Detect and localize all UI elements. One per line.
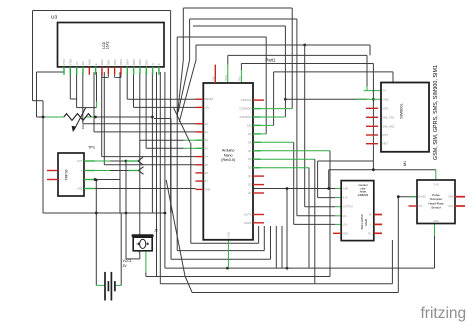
svg-text:D3: D3 xyxy=(248,183,252,187)
svg-text:GND: GND xyxy=(343,188,349,191)
svg-text:M1: M1 xyxy=(403,161,407,166)
svg-text:VSS: VSS xyxy=(62,59,66,65)
svg-text:INT: INT xyxy=(419,205,424,208)
svg-text:SCL: SCL xyxy=(449,205,454,208)
svg-text:GSM, SIM, GPRS, SMS, SIM900, S: GSM, SIM, GPRS, SMS, SIM900, SIM1 xyxy=(433,65,439,160)
svg-text:A6: A6 xyxy=(205,171,209,175)
svg-text:SIM800L: SIM800L xyxy=(399,102,404,118)
svg-text:R: R xyxy=(369,214,371,217)
svg-text:D1/TX: D1/TX xyxy=(244,213,252,217)
svg-text:AD8232: AD8232 xyxy=(358,193,369,197)
svg-text:SIM_RXD: SIM_RXD xyxy=(383,124,395,128)
svg-text:D10: D10 xyxy=(247,123,252,127)
svg-text:D13/SCK: D13/SCK xyxy=(241,98,252,102)
svg-text:NET: NET xyxy=(383,142,389,146)
svg-text:D7: D7 xyxy=(248,149,252,153)
svg-text:3.3V: 3.3V xyxy=(433,183,439,187)
svg-text:DB0: DB0 xyxy=(100,59,104,65)
svg-text:D5: D5 xyxy=(248,166,252,170)
svg-text:3.3V: 3.3V xyxy=(343,197,348,200)
svg-text:D11/MOSI: D11/MOSI xyxy=(240,115,252,119)
svg-text:VDD: VDD xyxy=(383,106,389,110)
svg-text:DB4: DB4 xyxy=(126,59,130,65)
svg-text:fritzing: fritzing xyxy=(421,305,467,322)
svg-text:GND: GND xyxy=(227,232,231,238)
svg-text:Sensor: Sensor xyxy=(431,206,441,210)
svg-text:DB2: DB2 xyxy=(113,59,117,65)
svg-text:A0: A0 xyxy=(205,122,209,126)
svg-text:A1: A1 xyxy=(205,130,209,134)
svg-text:A4: A4 xyxy=(205,155,209,159)
svg-text:VDD: VDD xyxy=(69,58,73,65)
svg-text:SEN-12650: SEN-12650 xyxy=(360,214,364,229)
svg-text:V0: V0 xyxy=(75,61,79,65)
svg-text:OUT: OUT xyxy=(77,159,83,163)
svg-text:GND: GND xyxy=(205,187,211,191)
svg-text:10k: 10k xyxy=(81,124,85,129)
svg-text:Arduino: Arduino xyxy=(222,149,234,153)
svg-text:SDA: SDA xyxy=(448,196,453,199)
svg-text:DB5: DB5 xyxy=(132,59,136,65)
svg-text:A3: A3 xyxy=(205,146,209,150)
svg-text:D2: D2 xyxy=(248,191,252,195)
svg-text:SDN: SDN xyxy=(343,232,348,235)
svg-text:TP1: TP1 xyxy=(88,146,95,150)
svg-text:D4: D4 xyxy=(248,174,252,178)
svg-text:A5: A5 xyxy=(205,163,209,167)
svg-text:D12/MISO: D12/MISO xyxy=(239,107,251,111)
svg-text:D9: D9 xyxy=(248,132,252,136)
svg-text:DB1: DB1 xyxy=(107,59,111,65)
svg-text:VCC1: VCC1 xyxy=(123,259,132,263)
svg-text:Part1: Part1 xyxy=(266,58,277,63)
svg-text:Nano: Nano xyxy=(224,153,233,157)
svg-text:DB6: DB6 xyxy=(138,59,142,65)
svg-text:16X2: 16X2 xyxy=(106,41,110,49)
svg-text:LO-: LO- xyxy=(343,215,347,218)
svg-text:D0/RX: D0/RX xyxy=(244,221,252,225)
svg-text:GND: GND xyxy=(433,219,439,223)
svg-text:GND: GND xyxy=(224,75,228,81)
svg-text:RS: RS xyxy=(81,61,85,65)
svg-text:D8: D8 xyxy=(248,140,252,144)
svg-text:RST: RST xyxy=(383,133,389,137)
svg-text:A2: A2 xyxy=(205,138,209,142)
svg-text:Mod1: Mod1 xyxy=(364,218,368,226)
svg-text:R/W: R/W xyxy=(88,59,92,65)
svg-text:E: E xyxy=(94,63,98,65)
svg-text:TMP36: TMP36 xyxy=(65,169,69,180)
svg-text:J2: J2 xyxy=(154,229,158,233)
svg-text:DB3: DB3 xyxy=(119,59,123,65)
svg-text:OUTPUT: OUTPUT xyxy=(343,206,354,209)
svg-text:U3: U3 xyxy=(51,15,57,21)
svg-text:GND: GND xyxy=(77,187,83,191)
svg-text:D6: D6 xyxy=(248,157,252,161)
svg-text:RESET: RESET xyxy=(205,97,214,101)
svg-text:LO+: LO+ xyxy=(343,223,348,226)
svg-text:3V: 3V xyxy=(123,264,128,268)
svg-text:VIN: VIN xyxy=(211,77,215,81)
svg-text:GND: GND xyxy=(383,97,389,101)
svg-text:3V3: 3V3 xyxy=(238,76,242,81)
svg-text:+5V: +5V xyxy=(205,105,210,109)
svg-text:TX: TX xyxy=(383,89,387,93)
svg-text:(Rev3.0): (Rev3.0) xyxy=(221,158,235,162)
svg-text:DB7: DB7 xyxy=(144,59,148,65)
svg-text:DAISC: DAISC xyxy=(419,196,427,199)
svg-text:A7: A7 xyxy=(205,179,209,183)
svg-text:SIM_TXD: SIM_TXD xyxy=(383,115,395,119)
